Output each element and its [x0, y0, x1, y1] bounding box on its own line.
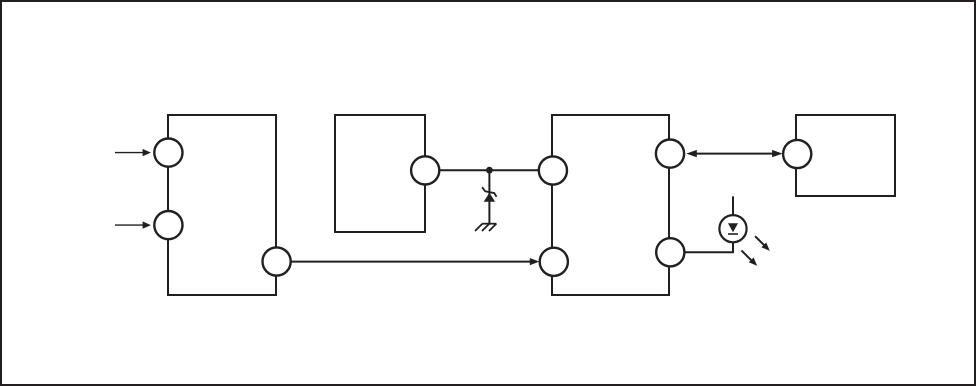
pin 3 of block 1	[263, 247, 291, 275]
pin 4 of block 3	[656, 238, 684, 266]
wire block2 to block3	[439, 169, 539, 171]
bidirectional arrow block3 to block4	[686, 150, 782, 157]
pin 1 of block 3	[539, 156, 567, 184]
block 4 (right interface block)	[796, 115, 895, 196]
signal wire block1 to block3	[291, 258, 540, 265]
pin 3 of block 3	[656, 140, 684, 168]
LED D1	[719, 215, 746, 242]
light emission arrow 1	[755, 236, 770, 251]
zener diode	[482, 187, 496, 202]
LED wire from block3	[684, 242, 733, 252]
pin 2 of block 1	[154, 211, 182, 239]
pin 1 of block 1	[154, 139, 182, 167]
input arrow 1	[115, 149, 151, 156]
LED top stem	[732, 196, 734, 215]
block 3 (driver block)	[552, 115, 669, 295]
zener branch wire	[488, 170, 490, 224]
pin 2 of block 3	[540, 248, 568, 276]
ground	[475, 224, 497, 231]
light emission arrow 2	[741, 250, 757, 266]
block 2 (upper middle supply block)	[335, 115, 425, 232]
input arrow 2	[115, 221, 151, 228]
junction dot	[486, 167, 493, 174]
pin of block 4	[783, 140, 811, 168]
block 1 (left input block)	[168, 115, 276, 295]
pin of block 2	[411, 156, 439, 184]
